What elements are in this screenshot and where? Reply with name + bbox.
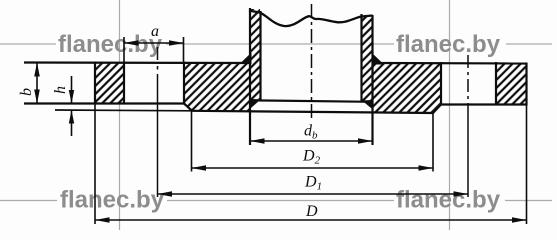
- hatch block right rim: [497, 63, 527, 104]
- svg-text:flanec.by: flanec.by: [58, 31, 163, 58]
- bolt hole right, left edge: [440, 62, 442, 105]
- dimension D: extension lines: [94, 105, 96, 225]
- pipe outer wall right line: [371, 15, 373, 145]
- flange outer edge left: [94, 62, 96, 105]
- weld fillet left: [240, 53, 252, 65]
- D1 extension left (solid below flange): [157, 104, 159, 197]
- bolt hole left, right edge: [183, 62, 185, 105]
- svg-text:flanec.by: flanec.by: [60, 187, 165, 214]
- h extension line (raised face bottom extended left): [55, 109, 192, 112]
- flange outer edge right: [525, 63, 527, 106]
- pipe inner wall left line: [259, 11, 261, 100]
- dimension h: lower arrow line: [71, 110, 73, 136]
- svg-text:db: db: [304, 123, 318, 142]
- flange bottom left: [24, 102, 184, 104]
- hatch block pipe right wall: [362, 16, 372, 101]
- hatch block left rim: [96, 63, 124, 103]
- hatch block pipe left wall: [251, 9, 261, 100]
- flange top surface right: [373, 62, 527, 65]
- pipe end face inside bore: [250, 100, 372, 102]
- svg-text:flanec.by: flanec.by: [396, 31, 501, 58]
- dimension D: line with arrows: [95, 219, 527, 221]
- centerline bolt hole right: [467, 55, 469, 104]
- D1 extension right (solid below flange): [467, 104, 469, 197]
- centerline bolt hole left: [157, 47, 159, 60]
- pipe top break wavy line: [249, 11, 373, 27]
- svg-text:D2: D2: [302, 148, 321, 167]
- bolt hole right, right edge: [495, 62, 497, 105]
- weld fillet right: [372, 53, 385, 65]
- dimension d_b: line with arrows: [250, 140, 373, 142]
- dimension b: line with arrows: [36, 63, 38, 104]
- dimension a: extension lines: [123, 37, 125, 62]
- svg-text:flanec.by: flanec.by: [396, 187, 501, 214]
- dimension a: line with arrows: [124, 42, 184, 44]
- bolt hole left, left edge: [123, 62, 125, 105]
- weld fillet inner right: [362, 100, 372, 109]
- weld fillet inner left: [251, 99, 261, 108]
- dimension h: upper arrow line: [71, 76, 73, 104]
- watermark vertical grid line right: [449, 0, 451, 230]
- svg-text:b: b: [18, 88, 35, 96]
- watermark vertical grid line left: [119, 0, 121, 230]
- svg-text:a: a: [151, 23, 159, 40]
- raised face chamfer left: [184, 104, 192, 111]
- pipe inner wall right line: [360, 14, 362, 101]
- centerline main axis: [311, 4, 313, 122]
- watermark horizontal line top: [0, 43, 56, 45]
- svg-text:D1: D1: [304, 174, 322, 193]
- dimension D1: line with arrows: [158, 193, 469, 195]
- dimension D2: extension lines: [191, 111, 193, 172]
- watermark horizontal line bottom: [0, 200, 57, 202]
- flange bottom right: [440, 103, 527, 105]
- dimension D2: line with arrows: [192, 167, 434, 169]
- svg-text:h: h: [52, 86, 69, 94]
- pipe outer wall left line: [249, 8, 251, 145]
- hatch block left hub with chamfer: [185, 63, 250, 111]
- raised face chamfer right: [433, 105, 441, 114]
- svg-text:D: D: [305, 203, 318, 220]
- raised face bottom: [192, 111, 433, 113]
- flange top surface left: [24, 61, 249, 64]
- hatch block right hub with chamfer: [374, 63, 441, 113]
